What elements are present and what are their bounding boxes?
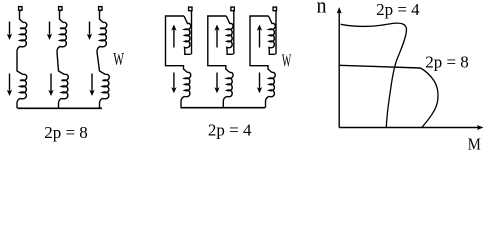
svg-text:2p = 8: 2p = 8 (425, 53, 469, 72)
wire from terminal X1 to upper coil (20, 10, 24, 22)
lower coil half-winding M1b (185, 72, 191, 96)
terminal square Y2 (phase B, 2p=4 winding) (231, 7, 234, 11)
svg-text:W: W (113, 51, 124, 70)
loop wire (top, left, bottom) of unit M2 (208, 16, 230, 73)
curve label 2p = 4 (376, 0, 420, 19)
terminal lead wire Y3 (275, 11, 277, 55)
svg-text:2p = 4: 2p = 4 (376, 0, 420, 19)
lower coil half-winding L2b (62, 74, 69, 98)
wire from coil M3b down to star-point bus (266, 96, 270, 107)
wire between coil L2a and coil L2b (57, 46, 65, 74)
wire from coil M2b down to star-point bus (223, 96, 227, 107)
label W (left winding) (113, 51, 124, 70)
svg-text:2p = 8: 2p = 8 (44, 123, 88, 142)
torque curve 2p=4 (341, 23, 407, 127)
upper coil half-winding M1a (reversed) (184, 16, 191, 54)
current arrow (down) beside coil L2b (48, 74, 53, 97)
svg-text:2p = 4: 2p = 4 (208, 121, 252, 140)
curve label 2p = 8 (425, 53, 469, 72)
svg-text:n: n (317, 0, 327, 18)
upper coil half-winding L3a (100, 22, 107, 46)
current arrow (down) beside coil M1b (171, 73, 176, 94)
terminal square X2 (phase B, 2p=8 winding) (59, 7, 62, 11)
wire from terminal X3 to upper coil (100, 10, 104, 22)
current arrow (down) beside coil M3b (257, 73, 262, 94)
axis label M (468, 135, 481, 153)
svg-text:M: M (468, 135, 481, 150)
lower coil half-winding L1b (20, 74, 27, 98)
upper coil half-winding M2a (reversed) (226, 16, 233, 54)
current arrow (up) inside loop M2 (214, 25, 219, 48)
star-point bus (2p=4) (181, 107, 266, 109)
wire from coil L3b down to star-point bus (100, 98, 103, 108)
upper coil half-winding L1a (20, 22, 27, 46)
terminal square Y1 (phase A, 2p=4 winding) (189, 7, 192, 11)
label W (middle winding) (282, 52, 291, 72)
lower coil half-winding M3b (269, 72, 275, 96)
terminal square X3 (phase C, 2p=8 winding) (99, 7, 102, 11)
current arrow (down) beside coil L2a (47, 22, 52, 41)
axis label n (317, 0, 327, 18)
current arrow (down) beside coil L1a (7, 22, 12, 41)
terminal lead wire Y2 (233, 11, 235, 55)
caption 2p = 8 (left) (44, 123, 88, 142)
wire from coil M1b down to star-point bus (181, 96, 185, 107)
terminal square X1 (phase A, 2p=8 winding) (19, 7, 22, 11)
synchronous-speed line for 2p=8 (339, 65, 420, 68)
M axis (horizontal) with arrow (339, 125, 483, 130)
terminal lead wire Y1 (191, 11, 193, 55)
wire between coil L3a and coil L3b (97, 46, 106, 74)
torque curve 2p=8 (421, 68, 438, 128)
loop wire (top, left, bottom) of unit M3 (250, 16, 272, 73)
lower coil half-winding M2b (227, 72, 233, 96)
svg-text:W: W (282, 52, 291, 72)
loop wire (top, left, bottom) of unit M1 (166, 16, 188, 73)
caption 2p = 4 (middle) (208, 121, 252, 140)
wire from coil L1b down to star-point bus (17, 98, 20, 108)
current arrow (up) inside loop M1 (171, 25, 176, 48)
lower coil half-winding L3b (103, 74, 110, 98)
current arrow (down) beside coil L3a (87, 22, 92, 41)
upper coil half-winding M3a (reversed) (269, 16, 276, 54)
current arrow (down) beside coil M2b (214, 73, 219, 94)
terminal square Y3 (phase C, 2p=4 winding) (273, 7, 276, 11)
current arrow (down) beside coil L3b (89, 74, 94, 97)
wire between coil L1a and coil L1b (17, 46, 23, 74)
n axis (vertical) with arrow (337, 7, 342, 128)
wire from coil L2b down to star-point bus (59, 98, 62, 108)
upper coil half-winding L2a (60, 22, 67, 46)
current arrow (down) beside coil L1b (7, 74, 12, 97)
current arrow (up) inside loop M3 (257, 25, 262, 48)
star-point bus (2p=8) (18, 107, 103, 109)
wire from terminal X2 to upper coil (60, 10, 64, 22)
